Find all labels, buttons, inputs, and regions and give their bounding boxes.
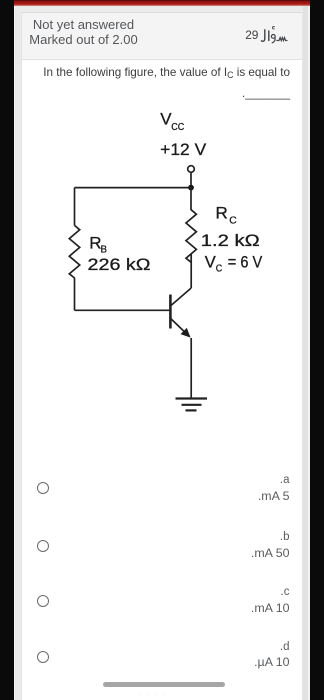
node junction dot xyxy=(188,185,194,191)
wire collector vertical xyxy=(190,254,192,288)
red top bar xyxy=(14,0,310,6)
header info text xyxy=(24,17,144,47)
ground symbol xyxy=(176,399,208,411)
svg-text:B: B xyxy=(101,243,108,255)
transistor Q1 emitter diagonal xyxy=(171,319,188,335)
svg-text:CC: CC xyxy=(171,121,184,133)
wire left vertical upper xyxy=(74,188,76,226)
wire left vertical lower xyxy=(74,278,76,311)
svg-text:226 kΩ: 226 kΩ xyxy=(88,255,151,274)
label VC = 6 V xyxy=(205,254,262,275)
label 1.2 kOhm xyxy=(201,231,260,250)
transistor Q1 emitter arrow xyxy=(181,328,191,338)
bottom horizontal scrollbar pill xyxy=(103,682,225,688)
svg-text:+12 V: +12 V xyxy=(160,140,207,159)
transistor Q1 base bar xyxy=(169,295,172,329)
answer options xyxy=(37,482,49,494)
label RC xyxy=(216,203,238,226)
power terminal VCC xyxy=(188,166,195,173)
right scrollbar track xyxy=(303,6,309,700)
label +12 V xyxy=(160,140,207,159)
wire base horizontal xyxy=(75,309,170,311)
question blank line (rtl period + underscores) xyxy=(242,88,290,101)
svg-text:1.2 kΩ: 1.2 kΩ xyxy=(201,231,260,250)
card header (question info) xyxy=(22,13,302,60)
svg-text:C: C xyxy=(216,263,223,274)
svg-text:R: R xyxy=(216,203,228,222)
svg-text:V: V xyxy=(205,254,216,272)
wire node to RC xyxy=(190,188,192,211)
question text line 1 xyxy=(43,66,290,82)
wire top horizontal xyxy=(75,187,192,189)
label VCC xyxy=(160,110,184,134)
faint dots under pill xyxy=(140,690,200,697)
svg-text:C: C xyxy=(229,215,237,227)
header question number: "29" + Arabic word swal drawn as SVG xyxy=(245,25,290,47)
label RB xyxy=(89,234,107,256)
svg-text:= 6 V: = 6 V xyxy=(228,254,262,272)
transistor Q1 collector diagonal xyxy=(171,288,191,306)
label 226 kOhm xyxy=(88,255,151,274)
wire emitter vertical xyxy=(190,338,192,399)
resistor RC xyxy=(186,210,196,263)
wire terminal to node xyxy=(190,172,192,185)
resistor RB xyxy=(69,225,79,278)
